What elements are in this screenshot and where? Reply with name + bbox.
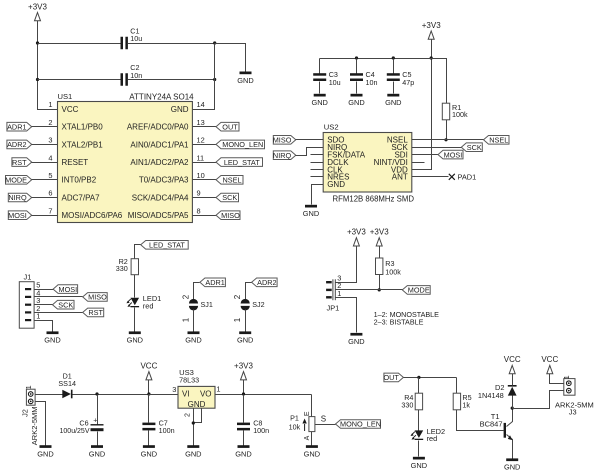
svg-text:+: +	[93, 418, 97, 425]
svg-text:1k: 1k	[462, 401, 470, 410]
svg-text:1: 1	[233, 317, 242, 322]
svg-text:GND: GND	[141, 450, 157, 459]
svg-text:GND: GND	[235, 450, 251, 459]
svg-text:1: 1	[564, 375, 571, 379]
svg-text:ADC7/PA7: ADC7/PA7	[62, 193, 101, 202]
svg-text:ATTINY24A SO14: ATTINY24A SO14	[129, 93, 194, 102]
svg-text:5: 5	[48, 171, 52, 180]
svg-text:GND: GND	[237, 76, 253, 85]
svg-text:GND: GND	[185, 336, 201, 345]
svg-text:P1: P1	[290, 414, 299, 423]
svg-text:ADR2: ADR2	[7, 140, 26, 149]
svg-text:14: 14	[197, 100, 205, 109]
svg-text:GND: GND	[237, 336, 253, 345]
svg-text:US2: US2	[324, 123, 339, 132]
svg-text:A: A	[304, 435, 311, 440]
svg-text:VO: VO	[200, 389, 212, 398]
svg-text:AIN1/ADC2/PA2: AIN1/ADC2/PA2	[130, 158, 189, 167]
svg-text:MOSI/ADC6/PA6: MOSI/ADC6/PA6	[62, 211, 123, 220]
svg-text:AIN0/ADC1/PA1: AIN0/ADC1/PA1	[130, 140, 189, 149]
svg-text:VCC: VCC	[140, 361, 157, 370]
svg-text:VCC: VCC	[62, 105, 79, 114]
svg-text:MODE: MODE	[5, 176, 27, 185]
svg-text:XTAL2/PB1: XTAL2/PB1	[62, 140, 104, 149]
svg-text:7: 7	[48, 206, 52, 215]
svg-text:MOSI: MOSI	[8, 211, 27, 220]
svg-text:LED_STAT: LED_STAT	[149, 241, 185, 250]
svg-text:1: 1	[181, 317, 190, 322]
svg-text:6: 6	[48, 189, 52, 198]
svg-text:1: 1	[26, 385, 33, 389]
svg-text:ADR1: ADR1	[7, 122, 26, 131]
svg-text:MOSI: MOSI	[444, 150, 463, 159]
svg-text:3: 3	[172, 385, 176, 394]
svg-text:47p: 47p	[402, 78, 414, 87]
svg-text:RESET: RESET	[62, 158, 89, 167]
svg-text:red: red	[427, 434, 438, 443]
svg-text:GND: GND	[504, 463, 520, 472]
svg-text:E: E	[304, 411, 311, 416]
svg-text:INT0/PB2: INT0/PB2	[62, 176, 97, 185]
svg-text:OUT: OUT	[222, 122, 238, 131]
svg-text:XTAL1/PB0: XTAL1/PB0	[62, 123, 104, 132]
svg-text:VCC: VCC	[541, 355, 558, 364]
svg-text:13: 13	[197, 118, 205, 127]
svg-text:+3V3: +3V3	[347, 228, 366, 237]
svg-text:J1: J1	[24, 272, 32, 281]
svg-text:1N4148: 1N4148	[478, 391, 504, 400]
svg-text:100k: 100k	[385, 267, 401, 276]
svg-text:MISO: MISO	[88, 293, 107, 302]
svg-text:C6: C6	[79, 419, 88, 428]
svg-text:10: 10	[197, 171, 205, 180]
svg-text:NIRQ: NIRQ	[8, 193, 27, 202]
svg-text:T0/ADC3/PA3: T0/ADC3/PA3	[139, 176, 189, 185]
svg-text:+3V3: +3V3	[422, 21, 441, 30]
svg-text:MODE: MODE	[408, 286, 430, 295]
svg-text:ANT: ANT	[392, 173, 408, 182]
svg-text:MISO: MISO	[273, 136, 292, 145]
svg-text:12: 12	[197, 136, 205, 145]
svg-text:1: 1	[216, 385, 220, 394]
svg-text:MONO_LEN: MONO_LEN	[222, 140, 263, 149]
svg-text:MOSI: MOSI	[59, 285, 78, 294]
svg-text:SCK/ADC4/PA4: SCK/ADC4/PA4	[132, 193, 189, 202]
svg-text:1: 1	[337, 289, 341, 298]
svg-text:9: 9	[197, 189, 201, 198]
svg-text:GND: GND	[89, 450, 105, 459]
svg-text:GND: GND	[311, 98, 327, 107]
svg-text:100u/25V: 100u/25V	[60, 428, 90, 435]
svg-text:GND: GND	[348, 337, 364, 346]
svg-text:VCC: VCC	[504, 355, 521, 364]
svg-text:1: 1	[48, 100, 52, 109]
svg-text:3: 3	[48, 136, 52, 145]
svg-text:RST: RST	[88, 308, 103, 317]
svg-text:ARK2-5MM: ARK2-5MM	[30, 406, 39, 445]
svg-text:GND: GND	[44, 336, 60, 345]
svg-text:SJ1: SJ1	[201, 300, 213, 309]
svg-text:SCK: SCK	[467, 143, 482, 152]
svg-text:PAD1: PAD1	[458, 173, 477, 182]
svg-text:SS14: SS14	[58, 379, 76, 388]
svg-text:RST: RST	[12, 158, 27, 167]
svg-text:11: 11	[197, 153, 205, 162]
svg-text:GND: GND	[185, 450, 201, 459]
svg-text:J2: J2	[21, 409, 30, 417]
svg-text:LED_STAT: LED_STAT	[224, 158, 260, 167]
svg-text:OUT: OUT	[383, 373, 399, 382]
svg-text:BC847: BC847	[480, 420, 503, 429]
svg-text:330: 330	[116, 264, 128, 273]
svg-text:GND: GND	[411, 461, 427, 470]
svg-text:JP1: JP1	[327, 304, 340, 313]
svg-text:SCK: SCK	[58, 300, 73, 309]
svg-text:2: 2	[181, 294, 190, 299]
svg-text:100n: 100n	[159, 426, 175, 435]
svg-text:GND: GND	[304, 450, 320, 459]
svg-text:GND: GND	[171, 105, 189, 114]
svg-text:SJ2: SJ2	[252, 300, 264, 309]
svg-text:10n: 10n	[130, 71, 142, 80]
svg-text:10u: 10u	[130, 34, 142, 43]
svg-text:ADR2: ADR2	[257, 278, 276, 287]
svg-text:GND: GND	[37, 450, 53, 459]
svg-text:100k: 100k	[452, 110, 468, 119]
svg-text:330: 330	[401, 401, 413, 410]
svg-text:VI: VI	[182, 389, 190, 398]
svg-text:MONO_LEN: MONO_LEN	[340, 420, 381, 429]
svg-text:MISO/ADC5/PA5: MISO/ADC5/PA5	[128, 211, 189, 220]
svg-text:10n: 10n	[366, 78, 378, 87]
svg-text:J3: J3	[569, 408, 577, 417]
svg-text:NSEL: NSEL	[222, 176, 241, 185]
svg-text:GND: GND	[385, 98, 401, 107]
svg-text:S: S	[321, 414, 326, 423]
svg-text:10u: 10u	[329, 78, 341, 87]
svg-text:GND: GND	[327, 180, 345, 189]
svg-text:2–3: BISTABLE: 2–3: BISTABLE	[374, 318, 424, 327]
svg-text:2: 2	[233, 294, 242, 299]
svg-text:8: 8	[197, 206, 201, 215]
svg-text:GND: GND	[348, 98, 364, 107]
svg-text:US1: US1	[58, 92, 73, 101]
svg-text:GND: GND	[188, 400, 206, 409]
svg-text:NSEL: NSEL	[489, 136, 508, 145]
svg-text:4: 4	[48, 153, 52, 162]
svg-text:GND: GND	[303, 209, 319, 218]
svg-text:100n: 100n	[253, 426, 269, 435]
svg-text:AREF/ADC0/PA0: AREF/ADC0/PA0	[127, 123, 189, 132]
svg-text:78L33: 78L33	[179, 375, 199, 384]
svg-text:RFM12B 868MHz SMD: RFM12B 868MHz SMD	[333, 194, 415, 203]
svg-text:MISO: MISO	[221, 211, 240, 220]
svg-text:GND: GND	[127, 336, 143, 345]
svg-text:10k: 10k	[289, 422, 301, 431]
svg-text:+3V3: +3V3	[370, 228, 389, 237]
svg-text:+3V3: +3V3	[234, 361, 253, 370]
svg-text:NIRQ: NIRQ	[273, 151, 292, 160]
svg-text:ADR1: ADR1	[205, 278, 224, 287]
svg-text:SCK: SCK	[222, 193, 237, 202]
svg-text:2: 2	[185, 413, 192, 417]
svg-text:red: red	[143, 301, 154, 310]
svg-text:+3V3: +3V3	[28, 2, 47, 11]
svg-text:2: 2	[48, 118, 52, 127]
